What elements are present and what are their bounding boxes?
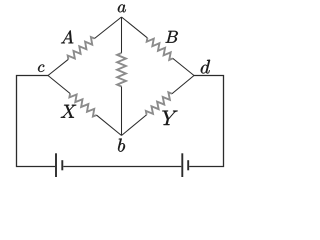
wire: [173, 58, 194, 75]
label A: [61, 30, 73, 43]
label Y: [162, 111, 177, 125]
node a: [118, 4, 126, 12]
wire: [96, 115, 121, 135]
wire: [121, 17, 123, 53]
wire: [48, 59, 68, 75]
resistor X: [69, 94, 96, 117]
wire: [172, 76, 194, 94]
node c: [38, 65, 44, 72]
battery E2 long plate: [181, 153, 183, 177]
battery E1 long plate: [55, 153, 57, 177]
wire between batteries: [63, 166, 181, 168]
resistor A: [68, 37, 95, 59]
wire: [94, 17, 121, 39]
label X: [61, 105, 77, 118]
resistor Y: [146, 92, 172, 114]
wire from battery loop to node d: [189, 76, 223, 167]
wire: [122, 115, 147, 136]
wire: [121, 87, 123, 136]
wire: [48, 76, 70, 94]
label B: [165, 31, 177, 43]
battery E1 short plate: [61, 160, 63, 170]
wire: [122, 17, 148, 38]
wire from node c to battery loop: [17, 76, 56, 167]
resistor B: [147, 38, 173, 60]
node b: [118, 139, 125, 152]
resistor G: [117, 53, 126, 87]
battery E2 short plate: [187, 160, 189, 170]
node d: [201, 60, 210, 74]
